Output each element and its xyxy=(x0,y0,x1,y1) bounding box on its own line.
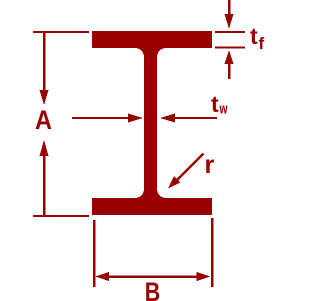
svg-text:A: A xyxy=(35,105,52,135)
dimension A: upper arrowhead (pointing down) xyxy=(40,90,49,105)
dimension t_f: upper arrow stem xyxy=(228,0,231,16)
dimension t_w: left arrowhead (pointing right) xyxy=(128,114,143,123)
dimension t_f: top extension line xyxy=(215,31,245,33)
dimension B: dimension line xyxy=(107,275,198,278)
dimension t_f: lower arrow stem xyxy=(228,62,231,79)
svg-text:w: w xyxy=(219,101,228,118)
dimension A: bottom extension line xyxy=(33,215,89,217)
dimension t_f: lower arrowhead (pointing up) xyxy=(225,50,234,64)
dimension t_w: left arrow stem xyxy=(72,117,130,119)
dimension B: left arrowhead (pointing left) xyxy=(95,272,109,281)
dimension r: arrow shaft xyxy=(176,154,204,182)
dimension t_f: bottom extension line xyxy=(215,47,245,49)
svg-text:r: r xyxy=(205,151,215,179)
dimension A: upper dimension line segment xyxy=(43,31,46,92)
svg-text:B: B xyxy=(145,277,161,301)
dimension r: arrowhead (pointing down-left at fillet) xyxy=(168,176,180,188)
dimension t_w: right arrow stem xyxy=(173,117,217,119)
svg-text:t: t xyxy=(211,91,219,117)
dimension t_w: right arrowhead (pointing left) xyxy=(160,114,175,123)
dimension B: left extension line xyxy=(93,220,96,287)
svg-text:t: t xyxy=(250,23,258,49)
dimension A: lower dimension line segment xyxy=(43,153,46,216)
dimension B: right extension line xyxy=(211,218,214,287)
dimension B: right arrowhead (pointing right) xyxy=(197,272,211,281)
svg-text:f: f xyxy=(259,34,265,53)
dimension t_f: upper arrowhead (pointing down) xyxy=(225,14,234,29)
dimension A: lower arrowhead (pointing up) xyxy=(40,140,49,156)
dimension A: top extension line xyxy=(33,31,89,33)
I-beam cross-section body xyxy=(92,31,212,215)
